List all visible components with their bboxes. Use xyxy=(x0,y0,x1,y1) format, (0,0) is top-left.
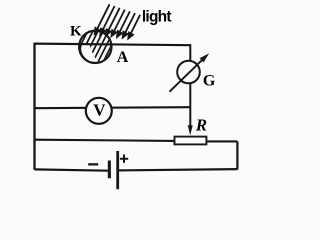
ray 1 xyxy=(97,4,110,30)
rheostat R box xyxy=(175,137,207,145)
battery plus sign xyxy=(120,155,128,163)
svg-text:V: V xyxy=(93,101,106,120)
wire galvanometer bottom lead down to rheostat slider xyxy=(189,83,191,128)
wire galvanometer top lead xyxy=(189,44,191,61)
phototube hatching (cathode) xyxy=(75,25,120,72)
wire top from left corner to right corner xyxy=(35,44,191,46)
ray 5 xyxy=(119,11,130,33)
galvanometer needle arrow xyxy=(170,60,203,92)
svg-text:A: A xyxy=(117,49,129,66)
rheostat slider arrowhead xyxy=(188,125,193,135)
svg-text:R: R xyxy=(195,115,207,134)
wire left vertical xyxy=(33,43,35,170)
svg-text:G: G xyxy=(203,72,216,89)
battery positive long plate xyxy=(116,151,119,189)
ray 6 xyxy=(125,13,136,34)
wire right vertical lower xyxy=(236,141,238,169)
light rays xyxy=(95,4,140,38)
phototube envelope circle xyxy=(79,31,111,63)
ray 2 xyxy=(102,6,115,31)
wire bottom left of battery xyxy=(35,169,109,170)
wire bottom right of battery xyxy=(118,169,237,170)
wire voltmeter branch xyxy=(35,107,191,108)
ray 4 xyxy=(113,10,125,33)
wire middle branch to rheostat xyxy=(35,140,175,141)
voltmeter V circle xyxy=(86,98,112,124)
battery negative short plate xyxy=(108,161,111,179)
galvanometer G circle xyxy=(177,61,200,84)
svg-text:K: K xyxy=(70,23,82,39)
wire rheostat right lead xyxy=(206,140,237,142)
ray 3 xyxy=(108,8,120,32)
ray 7 xyxy=(130,15,140,35)
battery minus sign xyxy=(88,163,98,165)
svg-text:light: light xyxy=(142,9,172,26)
phototube cathode arc xyxy=(80,45,96,63)
